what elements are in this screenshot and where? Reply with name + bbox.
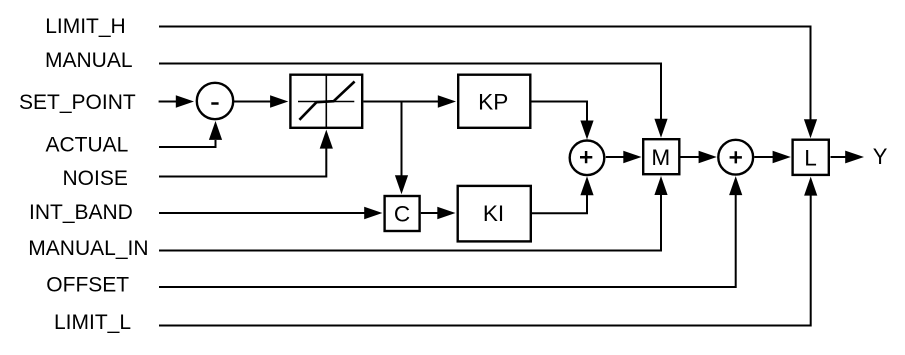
node ACTUAL label	[46, 133, 129, 156]
svg-text:M: M	[651, 145, 670, 170]
node MANUAL label	[45, 49, 133, 72]
block L	[793, 140, 829, 175]
node NOISE label	[63, 167, 128, 190]
svg-text:SET_POINT: SET_POINT	[19, 91, 136, 114]
sum junction S1 (minus)	[197, 83, 233, 119]
svg-text:C: C	[394, 201, 410, 226]
block KI	[458, 186, 531, 242]
wire MANUAL to M top	[159, 64, 668, 138]
deadband block	[290, 74, 362, 129]
wire sum S1 to deadband	[234, 95, 289, 108]
wire NOISE to deadband bottom	[159, 130, 333, 177]
wire LIMIT_L to L bottom	[159, 177, 817, 326]
svg-text:KP: KP	[478, 89, 508, 114]
wire deadband to KP with branch node	[363, 95, 456, 108]
wire MANUAL_IN to M bottom	[159, 176, 668, 251]
svg-text:INT_BAND: INT_BAND	[29, 201, 133, 224]
wire LIMIT_H to L top	[159, 27, 817, 139]
svg-text:ACTUAL: ACTUAL	[46, 133, 129, 156]
node LIMIT_L label	[54, 311, 131, 334]
sum junction S3 (plus)	[718, 140, 753, 175]
svg-text:LIMIT_H: LIMIT_H	[45, 15, 126, 38]
wire sum S2 to M	[606, 151, 642, 164]
node SET_POINT label	[19, 91, 136, 114]
svg-text:LIMIT_L: LIMIT_L	[54, 311, 131, 334]
wire SET_POINT to sum S1	[159, 95, 194, 108]
svg-text:MANUAL: MANUAL	[45, 49, 133, 72]
node INT_BAND label	[29, 201, 133, 224]
svg-text:MANUAL_IN: MANUAL_IN	[28, 237, 148, 260]
wire INT_BAND to C	[159, 207, 382, 220]
wire M to sum S3	[681, 151, 717, 164]
svg-text:KI: KI	[483, 201, 504, 226]
wire KP to sum S2 top	[532, 102, 594, 140]
wire C to KI	[421, 207, 456, 220]
svg-text:Y: Y	[873, 144, 888, 169]
block C	[385, 196, 420, 231]
node MANUAL_IN label	[28, 237, 148, 260]
wire ACTUAL to sum S1 bottom	[159, 121, 222, 147]
node OFFSET label	[46, 274, 129, 297]
node output Y	[873, 144, 888, 169]
wire sum S3 to L	[754, 151, 791, 164]
wire KI to sum S2 bottom	[532, 176, 594, 213]
wire OFFSET to sum S3 bottom	[159, 176, 742, 287]
block M	[643, 139, 679, 174]
sum junction S2 (plus)	[570, 141, 605, 176]
wire branch down to C top	[395, 102, 408, 195]
node LIMIT_H label	[45, 15, 126, 38]
block KP	[458, 75, 530, 128]
svg-text:NOISE: NOISE	[63, 167, 128, 190]
svg-text:L: L	[804, 145, 817, 170]
wire L to output Y	[831, 151, 865, 164]
svg-text:OFFSET: OFFSET	[46, 274, 129, 297]
